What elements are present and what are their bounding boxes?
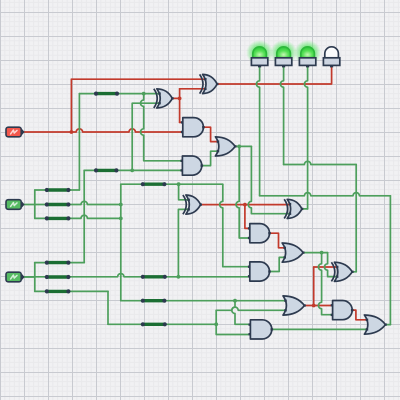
wire to G11 input A [314, 266, 339, 268]
wire G8 output stub [302, 208, 308, 210]
wire G14 output to G15 input A [305, 305, 335, 307]
wire segment S2 bottom [45, 216, 71, 220]
wire S2 row y184 to G10 feed [121, 183, 223, 185]
wire S3 bottom run [108, 323, 216, 325]
wire up to G6 input B [178, 209, 190, 276]
wire segment y170 [94, 168, 119, 172]
wire branch to G7 input A [245, 205, 252, 229]
junction S2 bottom [119, 217, 123, 221]
led L1 (lit) [246, 40, 273, 67]
wire segment row A [141, 299, 167, 303]
led L3 (lit) [294, 40, 321, 67]
wire S2 branch down to G5 input A [141, 94, 185, 161]
wire to G6 input A [179, 184, 190, 200]
toggle switch S3 (green) [5, 271, 24, 282]
junction S3 mid G6 feed [177, 275, 181, 279]
wire G10 output to G9 input B [270, 257, 288, 271]
wire segment S3 bottom 2 [141, 322, 167, 326]
wire G5 output to G4 input B [202, 151, 220, 165]
wire G14 input B run [216, 307, 287, 310]
wire G3 output to G4 input A [203, 127, 219, 141]
wire S2 trunk vertical x121 [120, 184, 122, 301]
toggle switch S2 (green) [5, 199, 24, 210]
junction row A G12 feed [233, 299, 237, 303]
wire segment y184 [141, 182, 167, 186]
junction G4 out [237, 145, 241, 149]
wire LED1 row [260, 193, 391, 196]
wire S2 branch vertical [34, 190, 36, 218]
junction G9 out [320, 251, 324, 255]
wire G7 output to G9 input A [270, 233, 288, 248]
wire G10 input A vertical [220, 184, 252, 267]
wire up to G1 input B [132, 103, 161, 170]
wire G6 output to XOR G8 input A [201, 204, 291, 206]
wire G1 out vertical [179, 89, 181, 123]
wire G9 output [303, 252, 327, 254]
led L2 (lit) [270, 40, 297, 67]
or gate G4 [215, 137, 236, 156]
wire red vertical to XOR G11 [313, 267, 315, 306]
and gate G5 [181, 156, 204, 175]
xor gate G11 [331, 262, 353, 281]
wire S3 down to G12 input B [216, 324, 252, 334]
xor gate G2 [200, 74, 219, 93]
wire S3 top vertical up [83, 170, 85, 262]
wire S2 middle branch [35, 201, 121, 204]
wire branch to G12 input A [232, 301, 253, 325]
wire S3 top branch [35, 262, 84, 264]
wire S3 row y170 to G5 input B [84, 169, 184, 171]
wire S1 output run to AND G3 input B [24, 129, 185, 132]
wire segment S2 top [45, 188, 71, 192]
wire S2 top branch [35, 189, 80, 191]
wire S3 output stub [24, 276, 35, 278]
wire G12 output to G13 input B [272, 328, 369, 330]
junction S2 mid [119, 203, 123, 207]
xor gate G6 [183, 195, 202, 214]
wire G13 up right edge [389, 196, 391, 325]
and gate G12 [249, 320, 274, 339]
junction G14 out branch [312, 304, 316, 308]
wire S3 bottom down [107, 291, 109, 324]
junction S1 branch [70, 130, 74, 134]
wire G4 output [235, 145, 251, 147]
wire LED1 lead [256, 67, 259, 195]
toggle switch S1 (on, red) [5, 126, 24, 137]
or gate G14 [283, 296, 306, 315]
wire S3 branch vertical [34, 263, 36, 292]
wire LED3 lead [304, 67, 307, 209]
wire G13 output stub [386, 324, 391, 326]
wire segment S3 mid 2 [141, 275, 167, 279]
wire segment G1 feed [94, 92, 119, 96]
wire LED2 lead [280, 67, 283, 164]
wire S2 bottom branch [35, 215, 121, 218]
and gate G10 [248, 262, 271, 281]
led L4 (off) [323, 47, 339, 68]
wire segment S2 mid [45, 202, 71, 206]
wire branch to G15 input B [318, 253, 334, 315]
wire to G3 input A [180, 121, 185, 123]
wire G2 output to LED4 [216, 67, 331, 84]
wire S3 bottom branch [35, 290, 108, 292]
wire S3 junction up to G14 input B [215, 310, 217, 324]
wire S2 row A y300 to G14 input A [121, 300, 288, 302]
wire LED2 row [284, 161, 357, 164]
or gate G9 [282, 243, 304, 262]
wire to G8 input B [248, 146, 291, 213]
junction y184 G6 feed [177, 182, 181, 186]
wire G1 output stub [172, 97, 179, 99]
junction S3 bottom [214, 322, 218, 326]
wire segment S3 mid [45, 275, 71, 279]
junction G1 output [178, 97, 182, 101]
and gate G15 [331, 301, 354, 320]
junction S2 G5 feed [142, 92, 146, 96]
wire S1 branch up at x71 [70, 79, 72, 132]
or gate G13 [364, 315, 386, 334]
xor gate G1 [154, 89, 174, 108]
wire G11 output stub [352, 271, 356, 273]
xor gate G8 [284, 199, 303, 218]
wire branch to G7 input B [236, 146, 252, 238]
junction y170 G1 feed [130, 169, 134, 173]
wire S2 output stub [24, 204, 35, 206]
junction G6 out branch [243, 203, 247, 207]
wire S2 top vertical up [78, 94, 80, 190]
and gate G7 [248, 224, 271, 243]
wire S2 to G1 input A [79, 93, 160, 95]
and gate G3 [181, 118, 205, 137]
wire to G2 input B [180, 88, 207, 90]
wire segment S3 top [45, 261, 71, 265]
wire segment S3 bottom [45, 289, 71, 293]
wire G15 output to G13 input A [352, 310, 369, 320]
wire to G11 input B [324, 253, 338, 277]
wire S3 middle run to G10 input B [22, 274, 252, 277]
wire S1 top run to XOR G2 input A [71, 78, 206, 80]
wire G11 up to LED2 row [355, 165, 357, 272]
